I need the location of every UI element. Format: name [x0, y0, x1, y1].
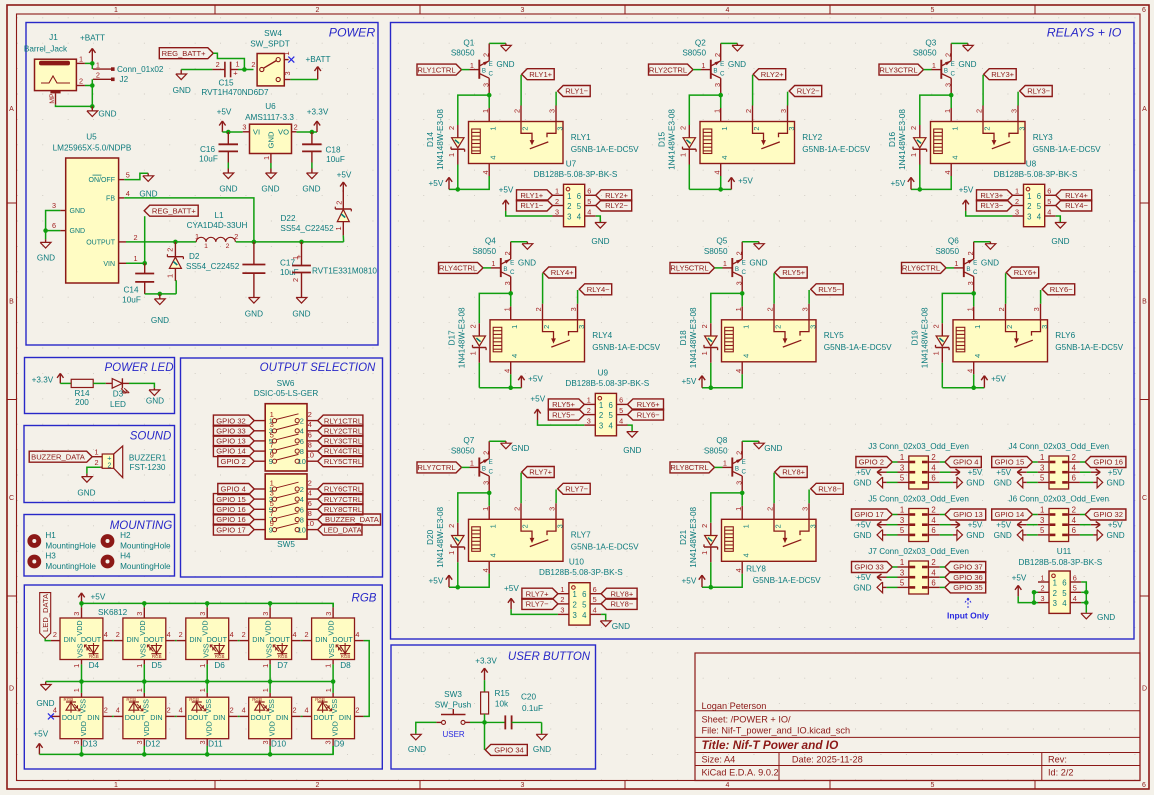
svg-text:L1: L1: [214, 211, 224, 220]
svg-text:3: 3: [587, 416, 591, 425]
power flag +5V at RLY2: [728, 176, 753, 189]
svg-text:3: 3: [283, 71, 292, 75]
svg-text:D8: D8: [340, 661, 351, 670]
svg-text:RLY5−: RLY5−: [818, 285, 841, 294]
connector J2 Conn_01x02: [93, 60, 164, 84]
svg-text:2: 2: [316, 782, 320, 789]
svg-text:1: 1: [510, 325, 519, 329]
svg-text:USER BUTTON: USER BUTTON: [508, 651, 591, 663]
wire D22 to output node: [342, 235, 344, 242]
wire D2 to ground rail: [174, 281, 177, 294]
switch SW4 SW_SPDT: [250, 29, 292, 86]
wire RLY7 pin4 to +5V: [449, 574, 489, 590]
svg-text:RGB: RGB: [152, 654, 162, 659]
svg-text:3: 3: [713, 83, 722, 87]
wire VDD bottom rail: [39, 746, 333, 757]
wire +5V to U7 pin3: [506, 211, 553, 216]
wire RLY4CTRL to Q4 base: [483, 267, 491, 269]
svg-text:8: 8: [300, 447, 304, 456]
hierarchical label LED_DATA (SW5 row 5): [318, 524, 363, 535]
svg-text:2: 2: [104, 706, 108, 715]
svg-text:KiCad E.D.A. 9.0.2: KiCad E.D.A. 9.0.2: [702, 768, 779, 778]
svg-text:Logan Peterson: Logan Peterson: [702, 701, 767, 711]
hierarchical label REG_BATT+ (top): [159, 48, 213, 59]
hierarchical label RLY3+: [984, 69, 1017, 80]
wire D5 VDD to top rail: [143, 603, 145, 607]
svg-text:5: 5: [619, 406, 623, 415]
power flag +BATT at J1: [80, 33, 105, 63]
wire VSS mid rail: [46, 679, 336, 684]
hierarchical label RLY7-: [558, 483, 591, 494]
svg-text:D18: D18: [679, 330, 688, 345]
svg-text:2: 2: [773, 325, 782, 329]
svg-text:3: 3: [1040, 594, 1044, 603]
svg-text:C: C: [973, 269, 978, 276]
text annotation Input Only: [947, 598, 989, 621]
svg-text:2: 2: [294, 123, 298, 132]
svg-text:2: 2: [308, 410, 312, 419]
wire D9 VDD to bottom rail: [332, 746, 334, 755]
svg-text:1: 1: [195, 232, 199, 241]
svg-text:4: 4: [973, 354, 982, 358]
svg-text:4: 4: [1047, 207, 1051, 216]
svg-text:U10: U10: [569, 558, 584, 567]
hierarchical label RLY7CTRL: [417, 462, 462, 473]
svg-text:2: 2: [116, 630, 120, 639]
svg-text:GPIO 15: GPIO 15: [216, 495, 246, 504]
wire D11 VSS to mid rail: [206, 682, 208, 693]
hierarchical label GPIO 16: [1085, 457, 1126, 468]
svg-text:+3.3V: +3.3V: [32, 376, 54, 385]
svg-text:2: 2: [481, 451, 490, 455]
svg-text:1: 1: [909, 153, 918, 157]
svg-text:VSS: VSS: [76, 643, 85, 658]
svg-text:RLY4−: RLY4−: [587, 285, 610, 294]
svg-text:3: 3: [808, 524, 817, 528]
svg-text:C: C: [9, 495, 14, 502]
svg-text:D7: D7: [277, 661, 288, 670]
svg-text:3: 3: [560, 606, 564, 615]
svg-text:4: 4: [1072, 463, 1077, 472]
svg-text:SW4: SW4: [264, 29, 282, 38]
svg-text:REG_BATT+: REG_BATT+: [152, 206, 197, 215]
svg-text:VSS: VSS: [327, 643, 336, 658]
svg-text:3: 3: [72, 612, 81, 616]
svg-text:+5V: +5V: [891, 179, 906, 188]
relay RLY4 G5NB-1A-E-DC5V: [490, 306, 661, 374]
wire +BATT junction down to J2 pin1: [91, 63, 93, 69]
svg-text:2: 2: [292, 706, 296, 715]
svg-text:2: 2: [300, 417, 304, 426]
wire +5V to J6 pin4: [1080, 524, 1091, 526]
svg-text:OUTPUT: OUTPUT: [86, 239, 116, 246]
svg-text:6: 6: [300, 505, 304, 514]
ground symbol right of J5: [953, 530, 985, 541]
hierarchical label RLY6CTRL: [902, 262, 947, 273]
svg-text:VDD: VDD: [201, 620, 210, 635]
svg-text:POWER LED: POWER LED: [104, 362, 173, 374]
svg-text:C: C: [950, 71, 955, 78]
power flag +3.3V (USER BUTTON): [475, 657, 497, 681]
power flag +5V at U10: [504, 584, 519, 609]
hierarchical label GPIO 4 (SW5 row 1): [218, 484, 254, 495]
svg-text:1N4148W-E3-08: 1N4148W-E3-08: [436, 506, 445, 567]
svg-text:S8050: S8050: [451, 49, 475, 58]
svg-text:DIN: DIN: [276, 713, 288, 722]
wire RLY5+ to RLY5 pin2: [773, 273, 775, 320]
svg-text:RLY7+: RLY7+: [529, 468, 552, 477]
hierarchical label RLY4+: [1056, 190, 1092, 201]
svg-text:5: 5: [587, 197, 591, 206]
hierarchical label RLY5−: [548, 409, 584, 420]
wire D13 VDD to bottom rail: [81, 746, 83, 755]
connector J1 Barrel_Jack: [24, 33, 85, 105]
wire L1 to +5V output node: [236, 240, 344, 245]
svg-text:4: 4: [712, 170, 721, 174]
svg-text:GND: GND: [173, 86, 191, 95]
svg-text:2: 2: [560, 595, 564, 604]
svg-text:G5NB-1A-E-DC5V: G5NB-1A-E-DC5V: [571, 145, 639, 154]
svg-text:B: B: [735, 465, 739, 472]
svg-text:RGB: RGB: [341, 654, 351, 659]
hierarchical label GPIO 17 (SW5 row 5): [213, 524, 254, 535]
wire U6 VO to C18/+3.3V: [296, 130, 317, 135]
svg-text:DSIC-05-LS-GER: DSIC-05-LS-GER: [254, 389, 319, 398]
svg-text:Q7: Q7: [463, 436, 474, 445]
wire D10 VDD to bottom rail: [269, 746, 271, 755]
MOUNTING section box: [24, 515, 175, 577]
wire +5V to U9 pin3: [538, 420, 585, 425]
svg-text:+5V: +5V: [530, 395, 545, 404]
relay RLY5 G5NB-1A-E-DC5V: [722, 306, 893, 374]
svg-text:GND: GND: [98, 109, 116, 118]
wire D21 to +5V node: [710, 562, 712, 587]
wire GPIO 35 to J7: [940, 586, 945, 588]
wire Q2 emitter to ground: [721, 42, 738, 44]
svg-text:4: 4: [1073, 594, 1077, 603]
svg-text:VSS: VSS: [204, 699, 213, 714]
wire RLY1CTRL to Q1 base: [462, 69, 470, 71]
svg-text:RLY8+: RLY8+: [782, 468, 805, 477]
power flag +5V at U6 input: [217, 107, 232, 132]
svg-text:RLY6CTRL: RLY6CTRL: [902, 264, 940, 273]
svg-text:B: B: [482, 465, 486, 472]
svg-text:RLY2−: RLY2−: [605, 201, 628, 210]
svg-text:DIN: DIN: [87, 713, 99, 722]
hierarchical label RLY5-: [811, 284, 844, 295]
wire D11 DOUT to D12 DIN: [175, 715, 177, 717]
svg-text:1: 1: [742, 325, 751, 329]
RGB LED D4 SK6812: [51, 607, 112, 670]
wire RLY1- to RLY1 pin3: [555, 92, 557, 122]
svg-text:MOUNTING: MOUNTING: [110, 520, 173, 532]
wire D6 VDD to top rail: [206, 603, 208, 607]
svg-text:6: 6: [1142, 782, 1146, 789]
RGB LED D9 SK6812: [303, 688, 364, 749]
svg-text:2: 2: [481, 53, 490, 57]
svg-text:U8: U8: [1026, 159, 1037, 168]
svg-text:RGB: RGB: [278, 654, 288, 659]
svg-text:RLY8CTRL: RLY8CTRL: [324, 505, 362, 514]
wire RLY8+ to RLY8 pin2: [773, 473, 775, 520]
svg-text:R15: R15: [494, 689, 509, 698]
svg-text:C: C: [720, 71, 725, 78]
svg-text:4: 4: [951, 155, 960, 159]
svg-text:G5NB-1A-E-DC5V: G5NB-1A-E-DC5V: [802, 145, 870, 154]
wire Q3 collector node: [920, 93, 954, 125]
svg-text:DB128B-5.08-3P-BK-S: DB128B-5.08-3P-BK-S: [1019, 558, 1103, 567]
capacitor C20 0.1uF: [485, 693, 543, 730]
wire +3.3V to R15: [484, 680, 486, 692]
svg-text:RLY1+: RLY1+: [529, 70, 552, 79]
svg-text:DB128B-5.08-3P-BK-S: DB128B-5.08-3P-BK-S: [994, 170, 1078, 179]
svg-text:GND: GND: [623, 446, 641, 455]
hierarchical label GPIO 32 (SW6 row 1): [213, 415, 254, 426]
schottky diode D22 SS54_C22452: [280, 190, 351, 235]
hierarchical label RLY4+: [543, 267, 576, 278]
svg-text:RLY7+: RLY7+: [526, 589, 549, 598]
power flag +5V left of J7: [856, 573, 886, 582]
ground symbol at Q2: [728, 43, 746, 69]
hierarchical label RLY7−: [522, 598, 558, 609]
wire D18 to +5V node: [710, 363, 712, 388]
svg-text:4: 4: [104, 630, 108, 639]
svg-text:+5V: +5V: [91, 593, 106, 602]
svg-text:GND: GND: [261, 185, 279, 194]
svg-text:C: C: [741, 269, 746, 276]
power flag +BATT at SW4: [305, 55, 330, 79]
svg-text:RLY7−: RLY7−: [565, 485, 588, 494]
connector J7 Conn_02x03_Odd_Even: [868, 547, 969, 594]
wire SW3 to GND: [416, 722, 437, 733]
svg-text:U5: U5: [86, 132, 97, 141]
power flag +5V right of J5: [951, 521, 983, 530]
svg-text:2: 2: [234, 232, 238, 241]
svg-text:RLY4−: RLY4−: [1065, 201, 1088, 210]
wire C20 to GND: [541, 722, 543, 733]
svg-text:RLY8: RLY8: [746, 565, 766, 574]
svg-text:GND: GND: [1106, 531, 1124, 540]
ground symbol at Q4: [518, 242, 536, 268]
svg-text:1N4148W-E3-08: 1N4148W-E3-08: [668, 109, 677, 170]
svg-text:10: 10: [298, 457, 306, 466]
svg-text:8: 8: [300, 515, 304, 524]
svg-text:S8050: S8050: [935, 247, 959, 256]
ground symbol left of J6: [994, 530, 1027, 541]
svg-text:RLY1−: RLY1−: [520, 201, 543, 210]
power flag +5V at U8: [959, 186, 974, 211]
ground symbol at Q6: [981, 242, 999, 268]
svg-text:0.1uF: 0.1uF: [522, 704, 543, 713]
svg-text:GND: GND: [764, 444, 782, 453]
svg-text:Q6: Q6: [948, 237, 959, 246]
svg-text:C18: C18: [325, 145, 340, 154]
svg-text:3: 3: [734, 481, 743, 485]
svg-text:GND: GND: [853, 478, 871, 487]
svg-text:1: 1: [334, 226, 343, 230]
relay RLY7 G5NB-1A-E-DC5V: [469, 506, 640, 574]
svg-text:B: B: [9, 299, 14, 306]
SOUND section box: [24, 426, 175, 503]
wire RLY1+ to RLY1 pin2: [520, 75, 522, 122]
svg-text:3: 3: [900, 568, 904, 577]
svg-text:VDD: VDD: [268, 721, 277, 736]
ground symbol at U7: [591, 222, 609, 246]
svg-text:VO: VO: [278, 128, 289, 137]
wire Q5 emitter to ground: [742, 241, 759, 243]
svg-text:4: 4: [489, 155, 498, 159]
svg-text:4: 4: [489, 553, 498, 557]
svg-text:+5V: +5V: [682, 577, 697, 586]
svg-text:10: 10: [305, 519, 313, 528]
svg-text:E: E: [742, 259, 746, 266]
svg-text:D22: D22: [280, 214, 295, 223]
wire GND to J6 pin5: [1027, 534, 1038, 536]
svg-text:1: 1: [262, 156, 271, 160]
svg-text:RLY3−: RLY3−: [980, 201, 1003, 210]
svg-text:1: 1: [114, 7, 118, 14]
svg-text:GPIO 35: GPIO 35: [953, 583, 983, 592]
svg-text:RLY5CTRL: RLY5CTRL: [324, 457, 362, 466]
svg-text:R14: R14: [74, 389, 89, 398]
power flag +5V left of J4: [996, 468, 1026, 477]
svg-text:3: 3: [198, 740, 207, 744]
svg-text:J4 Conn_02x03_Odd_Even: J4 Conn_02x03_Odd_Even: [1008, 442, 1109, 451]
svg-text:2: 2: [447, 524, 456, 528]
hierarchical label RLY2+: [753, 69, 786, 80]
svg-text:GND: GND: [77, 489, 95, 498]
svg-text:1: 1: [1053, 579, 1057, 588]
diode D14 1N4148W-E3-08: [426, 109, 465, 170]
regulator U5 LM25965X-5.0/NDPB: [52, 132, 138, 283]
svg-text:GND: GND: [966, 531, 984, 540]
svg-text:GPIO 16: GPIO 16: [1093, 458, 1123, 467]
svg-text:FST-1230: FST-1230: [130, 463, 166, 472]
svg-text:GND: GND: [994, 478, 1012, 487]
svg-text:2: 2: [773, 524, 782, 528]
svg-text:B: B: [503, 266, 507, 273]
svg-text:1: 1: [481, 109, 490, 113]
wire +5V to U6 VI: [222, 130, 242, 135]
hierarchical label RLY4CTRL: [439, 262, 484, 273]
svg-text:RLY8+: RLY8+: [610, 589, 633, 598]
svg-text:1: 1: [700, 351, 709, 355]
svg-text:2: 2: [1027, 202, 1031, 211]
svg-text:4: 4: [167, 630, 171, 639]
hierarchical label GPIO 2 (SW6 row 5): [218, 456, 254, 467]
hierarchical label RLY5+: [775, 267, 808, 278]
svg-text:4: 4: [308, 420, 312, 429]
hierarchical label LED_DATA (vertical): [40, 593, 51, 639]
svg-text:2: 2: [308, 479, 312, 488]
wire D16 to +5V node: [919, 165, 921, 190]
wire RLY6 pin4 to +5V: [942, 374, 984, 390]
wire RLY8CTRL to Q8 base: [715, 466, 723, 468]
hierarchical label RLY6+: [628, 399, 664, 410]
svg-text:4: 4: [609, 422, 614, 431]
svg-text:2: 2: [931, 506, 935, 515]
svg-text:8: 8: [308, 509, 312, 518]
diode D16 1N4148W-E3-08: [888, 109, 927, 170]
svg-text:OUTPUT SELECTION: OUTPUT SELECTION: [260, 362, 376, 374]
svg-text:1: 1: [261, 664, 270, 668]
hierarchical label GPIO 33 (SW6 row 2): [213, 425, 254, 436]
svg-text:RLY7: RLY7: [571, 531, 591, 540]
wire RLY8- to RLY8 pin3: [808, 490, 810, 520]
RGB LED D7 SK6812: [240, 607, 301, 670]
svg-text:+5V: +5V: [968, 468, 983, 477]
hierarchical label GPIO 16 (SW5 row 4): [213, 514, 254, 525]
hierarchical label RLY4-: [579, 284, 612, 295]
capacitor C18 10uF: [302, 132, 345, 164]
wire D7 DOUT to D8 DIN: [301, 640, 303, 642]
svg-text:G5NB-1A-E-DC5V: G5NB-1A-E-DC5V: [592, 343, 660, 352]
svg-text:+BATT: +BATT: [80, 33, 105, 42]
hierarchical label RLY3CTRL (SW6 row 3): [318, 435, 363, 446]
svg-text:3: 3: [1053, 599, 1057, 608]
switch SW5 DSIC-05-LS-GER: [254, 474, 318, 549]
svg-text:2: 2: [542, 325, 551, 329]
svg-text:2: 2: [734, 451, 743, 455]
wire D6 VSS to mid rail: [206, 664, 208, 681]
svg-text:RELAYS + IO: RELAYS + IO: [1047, 26, 1122, 40]
svg-text:GND: GND: [146, 396, 164, 405]
svg-text:GPIO 2: GPIO 2: [859, 458, 884, 467]
svg-text:LED_DATA: LED_DATA: [41, 593, 50, 632]
svg-text:4: 4: [116, 706, 120, 715]
svg-text:10uF: 10uF: [326, 155, 345, 164]
wire LED_DATA to D4 DIN: [45, 639, 51, 641]
svg-text:GND: GND: [408, 745, 426, 754]
svg-text:1: 1: [469, 351, 478, 355]
svg-text:GND: GND: [37, 254, 55, 263]
transistor Q2: [682, 38, 725, 95]
wire RLY3- to RLY3 pin3: [1017, 92, 1019, 122]
svg-text:5: 5: [931, 7, 935, 14]
svg-text:1: 1: [489, 524, 498, 528]
svg-text:1: 1: [599, 401, 603, 410]
svg-text:2: 2: [179, 630, 183, 639]
hierarchical label RLY1+: [517, 190, 553, 201]
svg-text:RLY8−: RLY8−: [818, 485, 841, 494]
mounting hole H3: [27, 551, 96, 571]
capacitor C16 10uF: [199, 132, 238, 164]
svg-text:1: 1: [72, 688, 81, 692]
wire Q4 emitter to ground: [511, 241, 528, 243]
power flag +5V at U7: [499, 186, 514, 211]
hierarchical label GPIO 15: [992, 457, 1033, 468]
svg-text:DIN: DIN: [150, 713, 162, 722]
svg-text:1: 1: [723, 259, 727, 268]
svg-text:1: 1: [133, 254, 137, 263]
svg-text:C: C: [488, 71, 493, 78]
svg-text:DB128B-5.08-3P-BK-S: DB128B-5.08-3P-BK-S: [565, 379, 649, 388]
svg-text:GPIO 4: GPIO 4: [221, 485, 246, 494]
ground symbol under C14: [151, 294, 169, 325]
svg-text:RLY6: RLY6: [1055, 331, 1075, 340]
svg-text:+5V: +5V: [991, 375, 1006, 384]
power flag +3.3V at U6 output: [307, 108, 329, 132]
title block: [695, 653, 1140, 781]
connector J3 Conn_02x03_Odd_Even: [868, 442, 969, 489]
net label GND on FB wire: [139, 190, 157, 199]
svg-text:4: 4: [126, 189, 130, 198]
wire Q2 collector node: [689, 93, 723, 125]
wire RLY7+ to RLY7 pin2: [520, 473, 522, 520]
svg-text:GND: GND: [219, 185, 237, 194]
svg-text:GPIO 32: GPIO 32: [216, 416, 246, 425]
svg-text:5: 5: [1037, 202, 1042, 211]
